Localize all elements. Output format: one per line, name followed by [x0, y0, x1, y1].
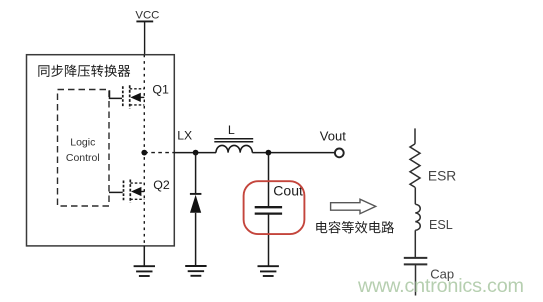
svg-text:Q1: Q1	[152, 83, 169, 97]
node diode junction	[193, 150, 199, 156]
internal VCC rail (dotted, through Q1/Q2)	[143, 55, 145, 246]
svg-text:LX: LX	[177, 128, 192, 142]
wire VCC to converter box	[144, 21, 146, 54]
wire box edge to inductor	[174, 152, 216, 154]
svg-text:Control: Control	[66, 152, 100, 164]
converter box	[27, 55, 175, 246]
label: converter title (CJK)	[38, 65, 130, 77]
capacitor Cout	[255, 153, 282, 267]
wire box bottom to ground	[143, 246, 145, 266]
svg-text:VCC: VCC	[135, 10, 159, 22]
block arrow	[331, 199, 376, 214]
red highlight around Cout	[244, 181, 305, 234]
node LX (junction dot)	[141, 150, 147, 156]
svg-text:ESL: ESL	[429, 218, 453, 232]
label: equivalent-circuit caption (CJK)	[316, 221, 394, 233]
resistor ESR	[410, 144, 420, 187]
ground under diode	[185, 266, 206, 276]
svg-text:www.cntronics.com: www.cntronics.com	[357, 275, 524, 297]
wire inductor to Vout	[252, 152, 335, 154]
equivalent circuit top lead	[414, 128, 416, 144]
inductor L core bars	[214, 138, 253, 140]
wire ESR to ESL	[414, 187, 416, 204]
svg-text:Q2: Q2	[153, 178, 170, 192]
inductor L coil	[216, 145, 252, 152]
node Cout junction	[266, 150, 272, 156]
ground under Cout	[258, 266, 279, 276]
Q1 gate wire from logic box	[110, 90, 123, 98]
capacitor Cap	[404, 258, 428, 296]
svg-text:Logic: Logic	[70, 137, 95, 149]
svg-text:L: L	[228, 123, 235, 137]
wire ESL to Cap	[414, 230, 416, 258]
diode (freewheeling)	[190, 153, 202, 266]
transistor Q2	[124, 180, 145, 203]
svg-text:Vout: Vout	[320, 129, 346, 144]
svg-text:ESR: ESR	[428, 169, 456, 184]
transistor Q1	[123, 85, 145, 108]
logic control dashed box	[58, 90, 110, 207]
Q2 gate wire from logic box	[109, 191, 123, 193]
dotted wire LX node to box edge	[144, 152, 174, 154]
inductor ESL	[415, 204, 420, 230]
VCC terminal bar	[136, 20, 153, 22]
Vout terminal circle	[335, 149, 344, 158]
ground under converter box	[134, 266, 155, 276]
